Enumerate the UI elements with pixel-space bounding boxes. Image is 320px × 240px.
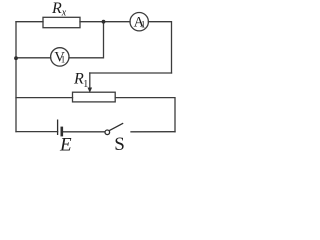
svg-text:x: x xyxy=(61,7,67,18)
wire switch to bottom-right corner xyxy=(131,131,175,133)
battery E short plate xyxy=(60,127,63,137)
resistor Rx xyxy=(43,17,80,27)
battery E long plate xyxy=(57,120,59,136)
svg-text:R: R xyxy=(51,0,62,17)
wire rheostat branch left xyxy=(16,97,73,99)
voltmeter U V1 xyxy=(51,48,69,66)
wire bottom-left horizontal xyxy=(16,131,58,133)
wire battery to switch xyxy=(62,131,105,133)
wire Rx to ammeter xyxy=(80,21,130,23)
wire ammeter to right corner and down xyxy=(148,22,171,73)
ammeter U A1 xyxy=(130,13,148,31)
junction node at left wire xyxy=(14,56,18,60)
wire wiper vertical xyxy=(89,73,91,89)
wire voltmeter branch right with vertical up xyxy=(69,22,104,58)
wiper arrowhead of rheostat R1 xyxy=(88,88,93,93)
wire rheostat branch right and down xyxy=(115,98,175,132)
wire voltmeter branch left xyxy=(16,57,51,59)
wire wiper horizontal xyxy=(90,72,172,74)
rheostat R1 xyxy=(73,92,116,102)
svg-text:1: 1 xyxy=(61,55,66,65)
wire top-left horizontal xyxy=(16,21,43,23)
svg-text:S: S xyxy=(114,134,125,155)
wire left vertical xyxy=(15,22,17,132)
switch S lever xyxy=(109,123,123,130)
switch S pivot circle xyxy=(105,130,110,135)
svg-text:E: E xyxy=(59,134,72,155)
svg-text:1: 1 xyxy=(83,79,88,90)
svg-text:1: 1 xyxy=(141,19,146,29)
junction node at top wire xyxy=(102,20,106,24)
